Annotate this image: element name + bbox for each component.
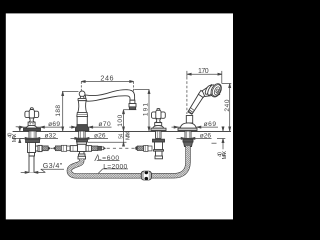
dim line G3/4 pipe end xyxy=(21,171,46,173)
right valve cross handle xyxy=(152,108,166,118)
spout ball finial xyxy=(79,91,85,97)
dim 188 vertical line xyxy=(62,92,64,132)
right valve escutcheon dome xyxy=(153,126,164,129)
svg-text:MAX: MAX xyxy=(222,151,228,160)
hose coupling weight xyxy=(141,171,151,181)
shower bell rib xyxy=(206,84,215,96)
spout tee left port xyxy=(70,146,77,152)
right valve body xyxy=(155,142,163,150)
left valve cross handle xyxy=(25,108,39,118)
dim 191 bottom arrow xyxy=(148,127,150,131)
dim 54 MAX lower extension line xyxy=(88,141,127,143)
holder hose connector xyxy=(184,142,193,147)
spout column ridge xyxy=(77,112,88,116)
braid link gap dash xyxy=(51,147,53,149)
dim 246 left extension (spout axis dashed) xyxy=(80,82,82,91)
braided hose right link from tee xyxy=(92,146,98,151)
right link end fitting xyxy=(98,146,102,150)
dashed supply link line xyxy=(107,147,136,149)
shower handle end bands xyxy=(189,110,193,113)
dim 240 bottom arrow xyxy=(229,127,231,131)
dim 188 top arrow xyxy=(62,92,64,96)
spout collar xyxy=(78,98,86,100)
shower face center xyxy=(215,89,218,93)
dim 188 bottom arrow xyxy=(62,127,64,131)
spout tee body xyxy=(78,144,87,151)
dim line ø26 spout shank xyxy=(71,137,109,139)
dim 40 MAX left: upper arrow at deck xyxy=(19,126,21,131)
svg-text:ø70: ø70 xyxy=(98,121,111,128)
L=2000 label underline and leader xyxy=(103,168,128,170)
left valve right port stub xyxy=(36,146,39,151)
svg-text:ø26: ø26 xyxy=(94,133,106,140)
shower neck ring xyxy=(198,90,206,97)
dim 191 vertical line xyxy=(148,90,150,132)
shower face plate xyxy=(209,82,224,99)
dim 191 top arrow xyxy=(148,90,150,94)
svg-text:100: 100 xyxy=(117,114,124,126)
dim 100 top arrow xyxy=(123,110,125,114)
svg-text:L=600: L=600 xyxy=(98,155,120,162)
right valve lower body xyxy=(156,151,163,156)
right valve collar xyxy=(154,150,164,151)
spout outlet tube xyxy=(130,100,135,103)
dim 40 MAX right: upper arrow at deck xyxy=(222,126,224,131)
right valve lock nut xyxy=(153,139,165,142)
shower face inner ring xyxy=(213,86,220,95)
dim 40 MAX right bottom arrow xyxy=(222,139,224,143)
braided hose left link piece A xyxy=(42,146,48,151)
braided piece to right valve xyxy=(135,146,137,151)
right valve port nut xyxy=(144,145,148,151)
spout lock nut xyxy=(77,139,88,142)
spout tee bottom nut A xyxy=(79,154,86,156)
right valve stem xyxy=(156,119,161,123)
dim 240 vertical line xyxy=(229,84,231,132)
L=600 label underline and leader xyxy=(97,160,120,162)
spout shank under deck xyxy=(79,131,85,138)
svg-text:191: 191 xyxy=(143,103,150,116)
dim 40 MAX right lower extension xyxy=(217,138,225,140)
left valve supply pipe G3/4 xyxy=(29,156,34,172)
braid stub to spout tee xyxy=(67,146,70,151)
shower bell xyxy=(202,85,219,97)
spout column lower xyxy=(77,116,87,124)
dim 246 right arrow xyxy=(130,81,134,83)
braid end nut left link xyxy=(61,145,66,151)
spout vase column xyxy=(78,101,87,113)
dim 100 vertical line xyxy=(123,110,125,131)
deck line xyxy=(13,131,231,133)
holder escutcheon flange xyxy=(178,128,197,131)
left valve bonnet xyxy=(28,122,35,126)
spout arm xyxy=(85,90,135,101)
dim 240 ref line at shower head top xyxy=(222,83,232,85)
holder stub xyxy=(186,116,192,124)
right valve threaded shank xyxy=(156,131,162,138)
svg-text:ø26: ø26 xyxy=(200,133,212,140)
dim 40 MAX left lower extension xyxy=(13,138,24,140)
svg-text:ø69: ø69 xyxy=(204,121,217,128)
svg-text:ø69: ø69 xyxy=(48,121,60,128)
left valve escutcheon flange xyxy=(24,128,41,131)
dim line ø70 spout flange xyxy=(69,126,111,128)
dim 246 right extension (dashed) xyxy=(133,82,135,92)
left valve lock nut xyxy=(26,139,40,142)
svg-text:MAX: MAX xyxy=(125,131,131,140)
svg-text:170: 170 xyxy=(198,68,209,75)
dim 170 line xyxy=(187,73,222,75)
svg-text:246: 246 xyxy=(100,73,113,82)
dim 246 left arrow xyxy=(81,81,85,83)
left valve threaded shank xyxy=(29,131,36,138)
dim 100 ref line under aerator xyxy=(123,109,136,111)
dim line ø32 left shank xyxy=(20,137,58,139)
holder escutcheon dome xyxy=(180,123,196,128)
svg-text:ø32: ø32 xyxy=(45,133,57,140)
holder shank xyxy=(185,131,191,138)
dim 188 ref line at spout ball top xyxy=(62,91,79,93)
dim 40 MAX left bottom arrow xyxy=(19,139,21,143)
left valve right port nut xyxy=(38,145,42,151)
dim line ø69 left xyxy=(18,126,63,128)
flexible hose outline xyxy=(69,146,188,176)
svg-text:MAX: MAX xyxy=(12,133,18,142)
left valve bottom nut xyxy=(29,153,35,157)
dim 170 right extension xyxy=(221,71,223,84)
dim 54 MAX vertical below deck xyxy=(123,131,125,142)
right valve bonnet xyxy=(155,123,162,126)
right valve escutcheon flange xyxy=(151,128,166,131)
svg-text:G3/4": G3/4" xyxy=(43,161,63,170)
svg-text:54: 54 xyxy=(119,134,125,139)
page background xyxy=(0,0,240,240)
dim line ø69 right holder xyxy=(172,126,219,128)
dim 170 right arrow xyxy=(218,73,222,75)
spout base flange xyxy=(76,125,89,131)
spout upper body xyxy=(77,142,87,144)
stray tick near holder xyxy=(212,142,217,144)
dim 170 left extension tick xyxy=(186,71,188,77)
spout tee right port xyxy=(86,146,92,152)
spout tee bottom nut B xyxy=(78,156,86,159)
left valve stem xyxy=(29,118,34,122)
shower bell rib small xyxy=(204,85,212,95)
dim 100 bottom arrow xyxy=(123,127,125,131)
dim line ø26 holder shank xyxy=(177,137,212,139)
holder lock nut xyxy=(183,139,193,142)
dim 246 line xyxy=(81,81,133,83)
left valve body xyxy=(28,143,36,153)
shower face rim xyxy=(210,83,222,97)
dim 54 MAX bottom arrow xyxy=(123,142,125,146)
spout neck xyxy=(80,96,84,98)
spout aerator xyxy=(129,104,136,107)
shower handle xyxy=(188,94,204,115)
dim 240 top arrow xyxy=(229,84,231,88)
svg-text:240: 240 xyxy=(224,99,231,111)
dim 170 left extension (holder axis dashed) xyxy=(186,77,188,114)
spout tee bottom neck xyxy=(80,152,85,155)
right valve bottom fitting xyxy=(155,156,163,159)
dim 191 ref line at spout hook top xyxy=(134,89,149,91)
dim 170 left arrow xyxy=(187,73,191,75)
G3/4 label underline and leader xyxy=(41,168,64,170)
left valve escutcheon dome xyxy=(26,125,37,128)
svg-text:L=2000: L=2000 xyxy=(103,163,127,170)
braided hose left link piece B xyxy=(53,147,55,150)
svg-text:188: 188 xyxy=(55,105,62,117)
